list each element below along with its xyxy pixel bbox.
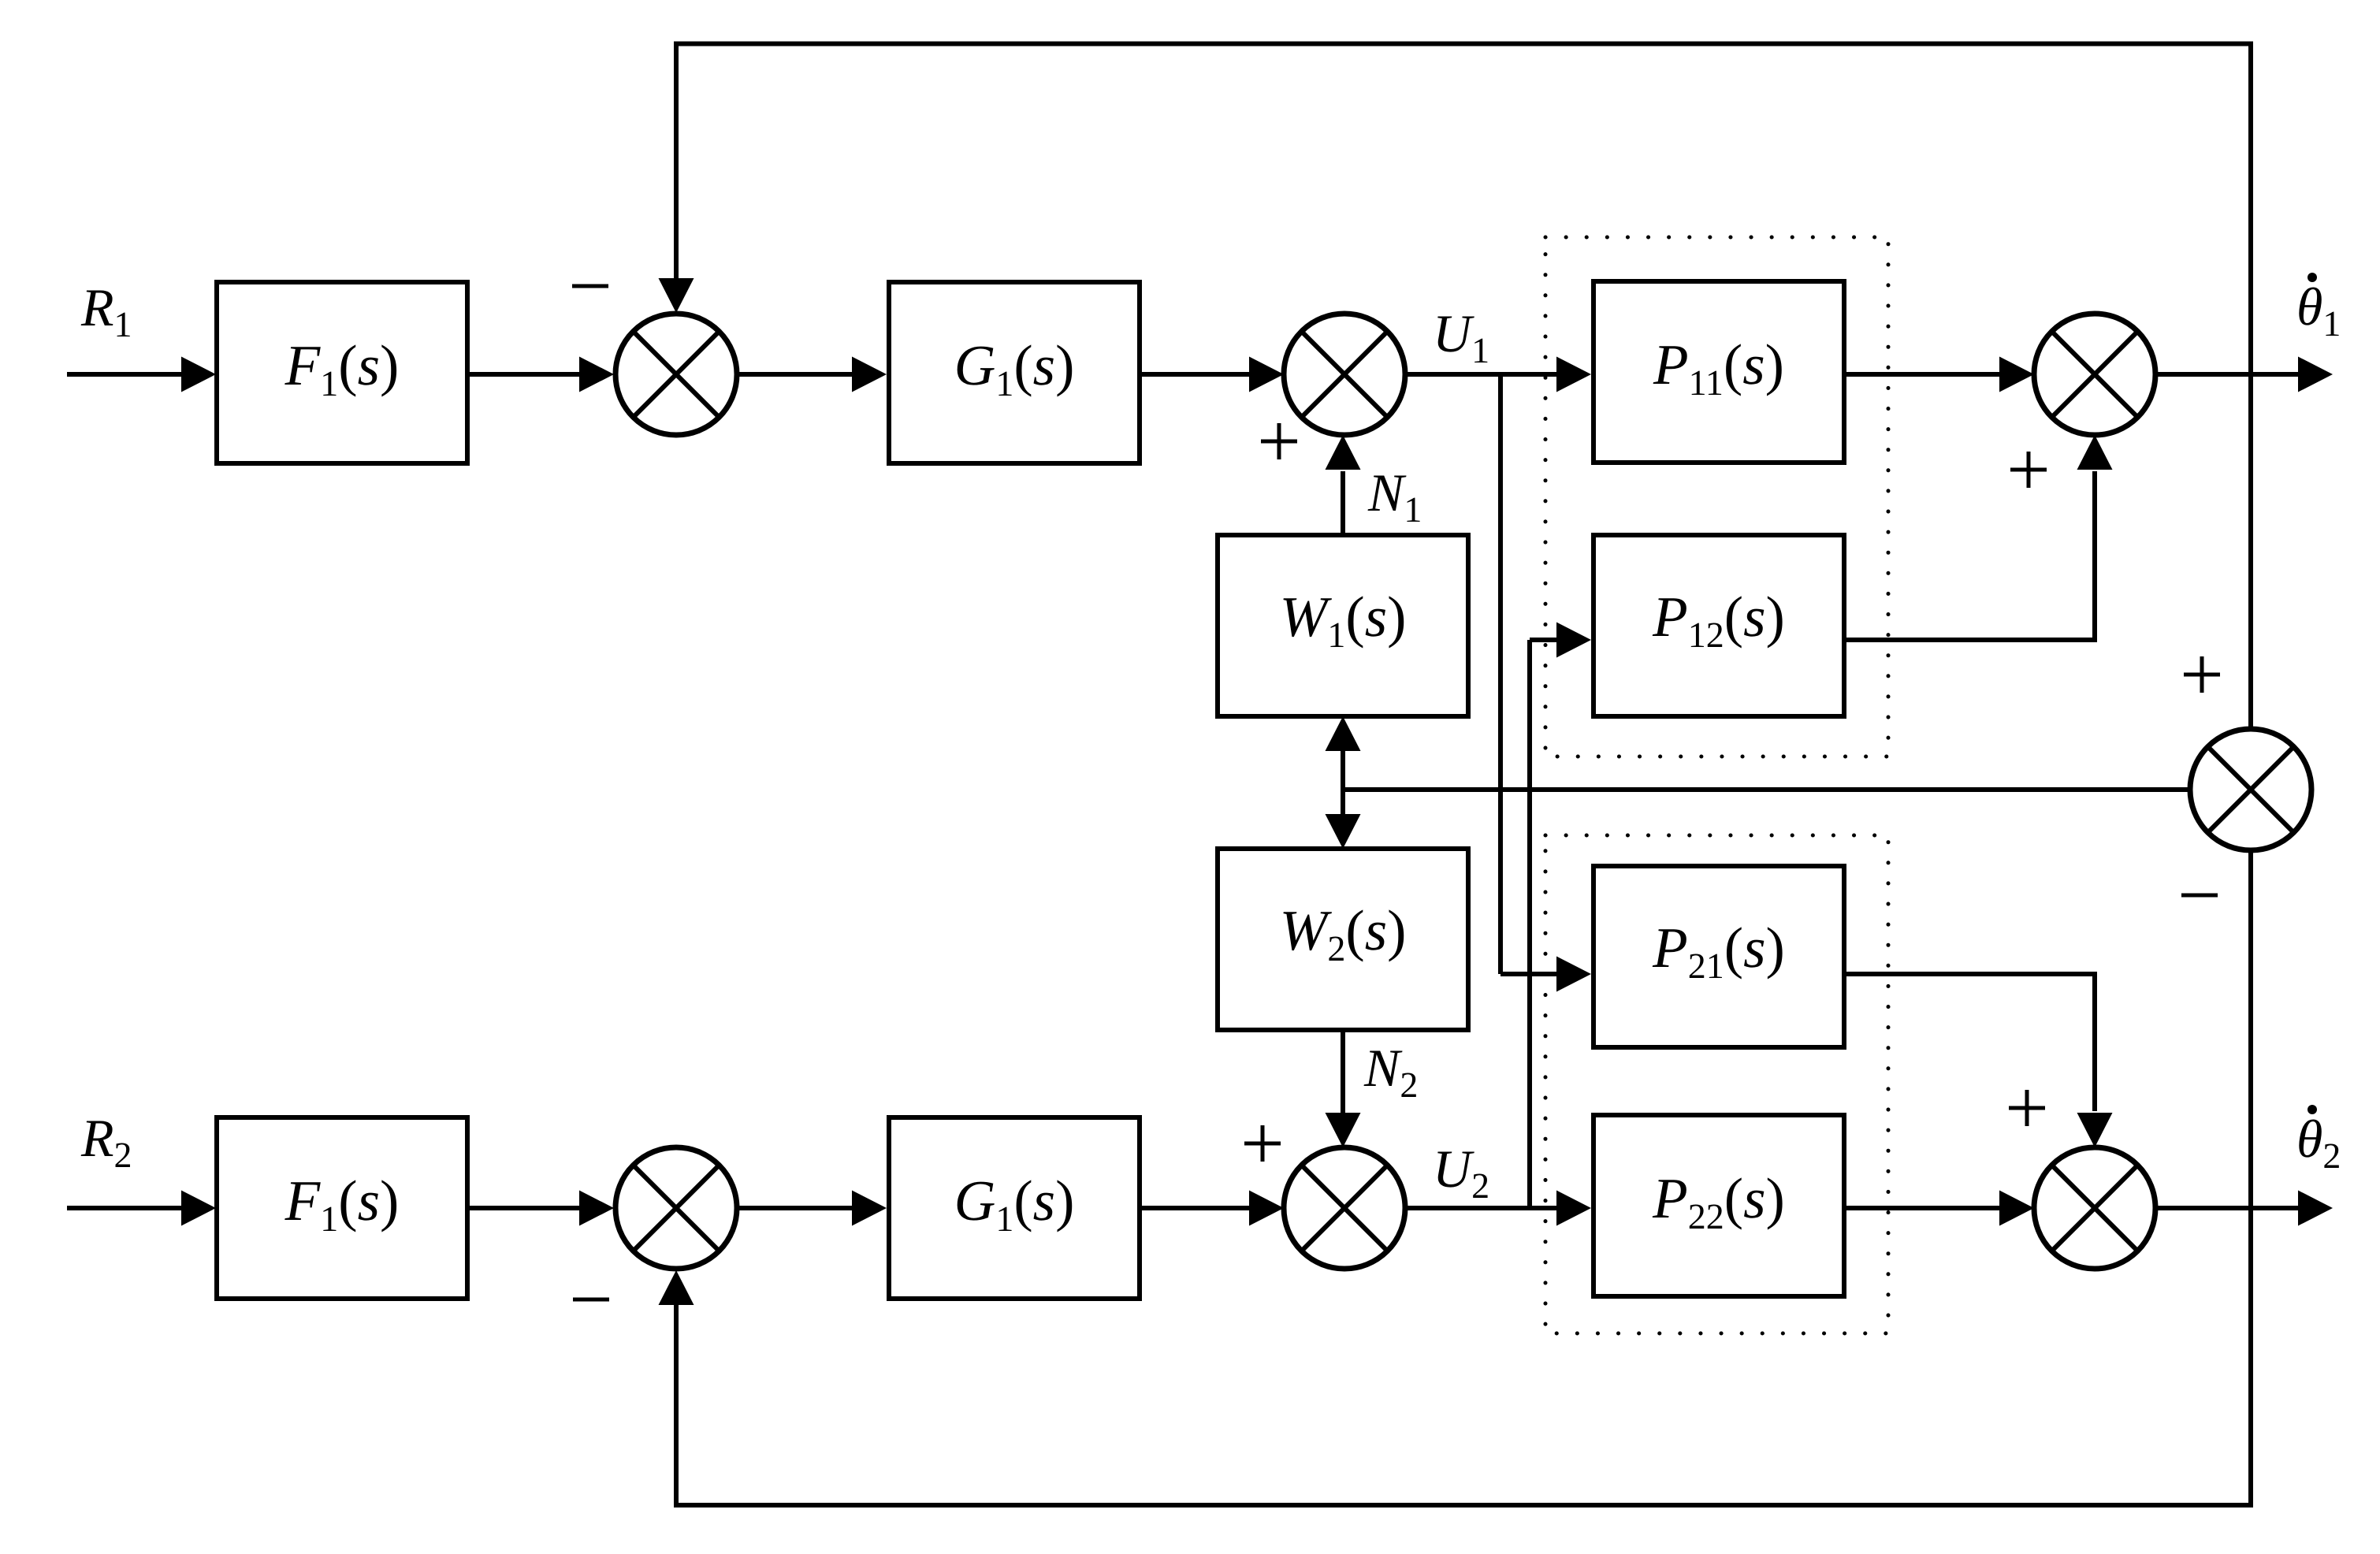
wire W junction down into W2 <box>1326 790 1361 849</box>
wire J7 to theta2 output <box>2155 1191 2333 1226</box>
block G1(s) upper <box>889 282 1140 463</box>
svg-text:G1(s): G1(s) <box>954 1169 1075 1239</box>
svg-text:N2: N2 <box>1363 1038 1418 1105</box>
wire J6 to P22 (U2) <box>1405 1191 1591 1226</box>
wire P12 to S3 lower input <box>1844 435 2113 640</box>
wire theta1 junction down to S4 <box>2248 374 2253 729</box>
block G1(s) lower <box>889 1117 1140 1299</box>
summing junction J6 <box>1284 1147 1405 1269</box>
svg-text:P21(s): P21(s) <box>1652 916 1785 986</box>
summing junction S2 <box>1284 314 1405 435</box>
wire U1 branch down <box>1498 374 1503 974</box>
wire F1 upper to S1 <box>467 357 614 392</box>
wire S1 to G1 upper <box>737 357 887 392</box>
svg-text:R2: R2 <box>80 1108 132 1175</box>
plus sign at J7 upper input <box>2009 1090 2045 1126</box>
block F1(s) upper <box>217 282 467 463</box>
plus sign at J6 upper input <box>1244 1125 1281 1162</box>
summing junction S3 <box>2034 314 2155 435</box>
svg-text:G1(s): G1(s) <box>954 333 1075 403</box>
wire F1 lower to S5 <box>467 1191 614 1226</box>
wire S5 to G1 lower <box>737 1191 887 1226</box>
svg-text:F1(s): F1(s) <box>284 333 400 403</box>
svg-text:R1: R1 <box>80 277 132 344</box>
minus sign at S4 lower input <box>2181 894 2218 898</box>
svg-text:P12(s): P12(s) <box>1652 585 1785 655</box>
svg-text:U2: U2 <box>1433 1139 1489 1206</box>
svg-text:F1(s): F1(s) <box>284 1169 400 1239</box>
minus sign at S5 <box>573 1298 609 1302</box>
plus sign at S4 upper input <box>2184 656 2220 693</box>
block F1(s) lower <box>217 1117 467 1299</box>
wire U2 branch to P12 <box>1530 623 1591 658</box>
wire G1 upper to S2 <box>1140 357 1284 392</box>
block P12(s) <box>1593 535 1844 716</box>
svg-text:W1(s): W1(s) <box>1280 585 1407 655</box>
block W1(s) <box>1218 535 1468 716</box>
wire G1 lower to J6 <box>1140 1191 1284 1226</box>
wire S3 to theta1 output <box>2155 357 2333 392</box>
svg-text:N1: N1 <box>1367 463 1422 530</box>
block W2(s) <box>1218 849 1468 1030</box>
minus sign at S1 <box>572 284 608 288</box>
summing junction S4 <box>2190 729 2311 850</box>
wire P21 to J7 upper input <box>1844 974 2113 1147</box>
svg-text:P22(s): P22(s) <box>1652 1166 1785 1236</box>
wire U1 branch to P21 <box>1501 957 1591 992</box>
block P22(s) <box>1593 1115 1844 1296</box>
summing junction S1 <box>615 314 737 435</box>
wire theta1 feedback over the top into S1 <box>659 44 2252 375</box>
dotted box around P21 and P22 <box>1545 835 1888 1333</box>
label theta2dot <box>2296 1105 2341 1176</box>
svg-text:W2(s): W2(s) <box>1280 898 1407 968</box>
dotted box around P11 and P12 <box>1545 237 1888 757</box>
svg-text:U1: U1 <box>1433 303 1489 370</box>
plus sign at S3 lower input <box>2010 452 2047 488</box>
wire W1 to S2 (N1) <box>1326 435 1361 535</box>
wire theta2 feedback down and across bottom into S5 <box>659 850 2252 1505</box>
svg-text:θ1: θ1 <box>2296 277 2341 344</box>
wire P11 to S3 <box>1844 357 2034 392</box>
wire W junction up into W1 <box>1326 716 1361 790</box>
wire P22 to J7 <box>1844 1191 2034 1226</box>
label theta1dot <box>2296 273 2341 344</box>
wire W2 to J6 (N2) <box>1326 1030 1361 1147</box>
wire R2 input <box>67 1191 216 1226</box>
svg-text:P11(s): P11(s) <box>1653 333 1784 403</box>
plus sign at S2 <box>1261 423 1297 459</box>
summing junction J7 <box>2034 1147 2155 1269</box>
summing junction S5 <box>615 1147 737 1269</box>
wire S2 to P11 (U1) <box>1405 357 1591 392</box>
wire R1 input <box>67 357 216 392</box>
wire U2 branch up <box>1527 640 1532 1208</box>
block P11(s) <box>1593 281 1844 463</box>
block P21(s) <box>1593 866 1844 1047</box>
svg-text:θ2: θ2 <box>2296 1109 2341 1176</box>
wire S4 output to W junction <box>1343 787 2190 792</box>
